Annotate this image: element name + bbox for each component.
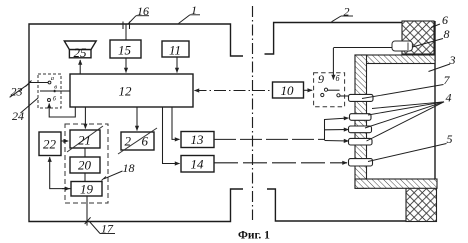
svg-text:7: 7	[444, 73, 451, 87]
svg-text:5: 5	[447, 132, 453, 146]
svg-text:14: 14	[191, 157, 205, 172]
svg-text:23: 23	[11, 85, 23, 99]
svg-text:Фиг. 1: Фиг. 1	[238, 230, 270, 242]
svg-text:1: 1	[191, 3, 197, 17]
svg-text:13: 13	[191, 132, 205, 147]
svg-text:10: 10	[281, 83, 295, 98]
svg-text:2: 2	[125, 134, 132, 149]
svg-text:в: в	[54, 84, 57, 91]
svg-text:15: 15	[118, 43, 132, 58]
svg-text:24: 24	[12, 109, 24, 123]
svg-text:2: 2	[344, 5, 350, 19]
svg-text:б: б	[53, 96, 57, 103]
svg-text:4: 4	[446, 91, 452, 105]
svg-text:19: 19	[80, 182, 94, 197]
svg-text:6: 6	[442, 13, 448, 27]
svg-text:18: 18	[123, 161, 135, 175]
svg-text:a: a	[51, 75, 54, 82]
svg-text:11: 11	[169, 43, 181, 58]
svg-text:8: 8	[444, 27, 450, 41]
svg-text:20: 20	[78, 158, 92, 173]
svg-text:9: 9	[318, 72, 324, 86]
svg-text:б: б	[336, 74, 341, 83]
svg-text:25: 25	[74, 45, 88, 60]
svg-text:6: 6	[142, 134, 149, 149]
svg-text:16: 16	[137, 4, 149, 18]
svg-text:3: 3	[449, 53, 456, 67]
svg-text:21: 21	[78, 133, 91, 148]
svg-text:17: 17	[101, 222, 114, 236]
svg-text:22: 22	[43, 137, 57, 152]
svg-text:12: 12	[119, 84, 133, 99]
